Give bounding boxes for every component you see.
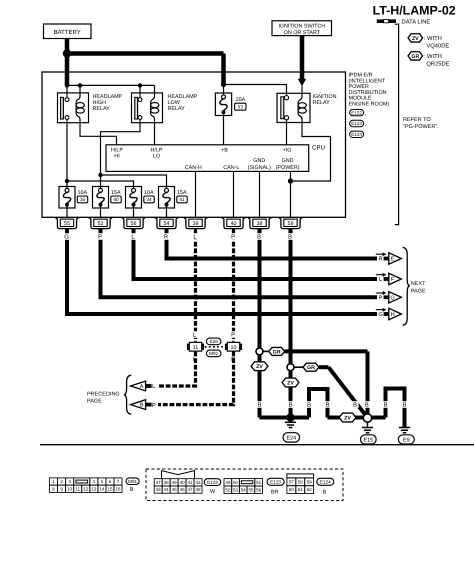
svg-text:GND: GND (282, 158, 294, 164)
svg-text:41: 41 (179, 197, 185, 203)
svg-text:43: 43 (156, 487, 162, 492)
svg-text:15A: 15A (111, 190, 121, 196)
svg-text:51: 51 (256, 480, 262, 485)
svg-text:15A: 15A (177, 190, 187, 196)
svg-text:53: 53 (233, 487, 239, 492)
svg-text:B: B (288, 235, 292, 241)
svg-text:NEXT: NEXT (411, 281, 426, 287)
svg-text:48: 48 (196, 487, 202, 492)
svg-text:M91: M91 (128, 479, 137, 484)
svg-text:20A: 20A (236, 97, 246, 103)
svg-text:GR: GR (273, 349, 281, 355)
svg-text:41: 41 (188, 480, 194, 485)
svg-text:56: 56 (131, 221, 137, 227)
svg-text:B: B (353, 403, 357, 409)
svg-text:B: B (384, 403, 388, 409)
svg-text:42: 42 (196, 480, 202, 485)
svg-text:57: 57 (289, 479, 295, 484)
svg-text:ENGINE ROOM): ENGINE ROOM) (349, 102, 390, 108)
svg-text:GND: GND (253, 158, 265, 164)
svg-text:38: 38 (257, 221, 263, 227)
svg-text:+IG: +IG (283, 147, 292, 153)
svg-text:ON OR START: ON OR START (284, 30, 321, 36)
svg-text:53: 53 (238, 105, 244, 111)
svg-text:IGNITION SWITCH: IGNITION SWITCH (278, 24, 325, 30)
svg-text:61: 61 (298, 487, 304, 492)
svg-text:RELAY: RELAY (168, 106, 186, 112)
svg-text:H: H (391, 312, 395, 318)
svg-text:CPU: CPU (312, 145, 325, 152)
svg-text:H/LP: H/LP (111, 147, 123, 153)
svg-text:P: P (379, 296, 383, 302)
svg-text:BR: BR (271, 489, 279, 495)
svg-text:: WITH: : WITH (424, 54, 442, 60)
svg-text:VQ40DE: VQ40DE (426, 43, 449, 50)
svg-text:B: B (257, 235, 261, 241)
svg-text:58: 58 (298, 479, 304, 484)
svg-text:E15: E15 (364, 437, 374, 443)
svg-text:: WITH: : WITH (424, 36, 442, 42)
svg-text:A: A (140, 384, 144, 390)
svg-text:CAN-L: CAN-L (223, 165, 239, 171)
svg-text:40: 40 (231, 221, 237, 227)
svg-text:55: 55 (64, 221, 70, 227)
svg-text:RELAY: RELAY (93, 106, 111, 112)
svg-text:56: 56 (256, 487, 262, 492)
svg-text:50: 50 (233, 480, 239, 485)
svg-text:11: 11 (75, 486, 80, 491)
svg-text:“PG-POWER”.: “PG-POWER”. (403, 124, 439, 130)
svg-text:R: R (164, 235, 168, 241)
svg-text:E123: E123 (270, 479, 281, 484)
svg-text:39: 39 (193, 221, 199, 227)
svg-text:BATTERY: BATTERY (54, 29, 81, 36)
svg-text:GR: GR (307, 365, 315, 371)
svg-text:15: 15 (107, 486, 113, 491)
svg-text:B: B (326, 403, 330, 409)
svg-text:RELAY: RELAY (313, 100, 331, 106)
svg-text:B: B (258, 403, 262, 409)
svg-text:E122: E122 (351, 110, 362, 115)
svg-text:B: B (403, 403, 407, 409)
svg-text:P: P (231, 333, 235, 339)
svg-text:F: F (391, 277, 395, 283)
svg-text:G: G (390, 295, 394, 301)
svg-text:10A: 10A (78, 190, 88, 196)
svg-text:54: 54 (241, 487, 247, 492)
svg-text:52: 52 (225, 487, 231, 492)
svg-text:39: 39 (172, 480, 178, 485)
svg-text:E24: E24 (287, 435, 297, 441)
svg-text:B: B (289, 403, 293, 409)
svg-text:(SIGNAL): (SIGNAL) (248, 165, 272, 171)
svg-text:B: B (130, 487, 134, 493)
svg-text:ZV: ZV (412, 36, 419, 42)
svg-text:10: 10 (231, 345, 237, 351)
svg-text:B: B (323, 489, 327, 495)
svg-text:E122: E122 (207, 480, 218, 485)
svg-text:46: 46 (180, 487, 186, 492)
svg-text:PRECEDING: PRECEDING (87, 391, 120, 397)
svg-text:QR25DE: QR25DE (426, 61, 449, 68)
svg-text:E26: E26 (210, 339, 219, 344)
svg-text:+B: +B (221, 147, 228, 153)
svg-text:37: 37 (156, 480, 162, 485)
svg-text:PAGE: PAGE (87, 398, 102, 404)
svg-text:10A: 10A (144, 190, 154, 196)
svg-text:59: 59 (288, 221, 294, 227)
svg-text:52: 52 (98, 221, 104, 227)
svg-text:H/LP: H/LP (151, 147, 163, 153)
svg-text:E: E (391, 257, 395, 263)
svg-text:40: 40 (180, 480, 186, 485)
svg-text:54: 54 (164, 221, 170, 227)
svg-text:B: B (140, 403, 144, 409)
svg-text:: DATA LINE: : DATA LINE (398, 20, 430, 26)
svg-text:P: P (98, 235, 102, 241)
svg-text:38: 38 (164, 480, 170, 485)
svg-text:M91: M91 (209, 351, 218, 356)
svg-text:E124: E124 (320, 479, 331, 484)
svg-text:10: 10 (67, 486, 73, 491)
svg-text:16: 16 (116, 486, 122, 491)
svg-text:REFER TO: REFER TO (403, 117, 431, 123)
svg-text:12: 12 (83, 486, 89, 491)
svg-text:R: R (379, 257, 383, 263)
svg-text:ZV: ZV (344, 415, 351, 421)
svg-text:G: G (378, 311, 383, 318)
svg-text:PAGE: PAGE (411, 288, 426, 294)
svg-text:HI: HI (114, 154, 119, 160)
svg-text:G: G (64, 234, 69, 241)
svg-text:35: 35 (80, 197, 86, 203)
svg-text:44: 44 (164, 487, 170, 492)
svg-text:14: 14 (99, 486, 105, 491)
svg-text:62: 62 (307, 487, 313, 492)
svg-text:13: 13 (91, 486, 97, 491)
svg-text:34: 34 (146, 197, 152, 203)
svg-text:49: 49 (225, 480, 231, 485)
svg-text:11: 11 (193, 345, 199, 351)
svg-text:60: 60 (289, 487, 295, 492)
svg-text:ZV: ZV (256, 364, 263, 370)
svg-text:59: 59 (307, 479, 313, 484)
svg-text:45: 45 (172, 487, 178, 492)
svg-text:E124: E124 (351, 132, 362, 137)
svg-text:LO: LO (153, 154, 160, 160)
svg-text:CAN-H: CAN-H (185, 165, 202, 171)
svg-text:ZV: ZV (287, 380, 294, 386)
svg-text:(POWER): (POWER) (276, 165, 300, 171)
svg-text:55: 55 (248, 487, 254, 492)
svg-text:B: B (307, 403, 311, 409)
svg-text:47: 47 (188, 487, 194, 492)
svg-text:P: P (152, 403, 156, 409)
svg-text:E9: E9 (403, 437, 410, 443)
svg-text:LT-H/LAMP-02: LT-H/LAMP-02 (373, 4, 456, 18)
svg-text:40: 40 (113, 197, 119, 203)
svg-text:B: B (365, 403, 369, 409)
svg-text:E123: E123 (351, 121, 362, 126)
svg-text:GR: GR (411, 54, 419, 60)
svg-text:P: P (231, 235, 235, 241)
